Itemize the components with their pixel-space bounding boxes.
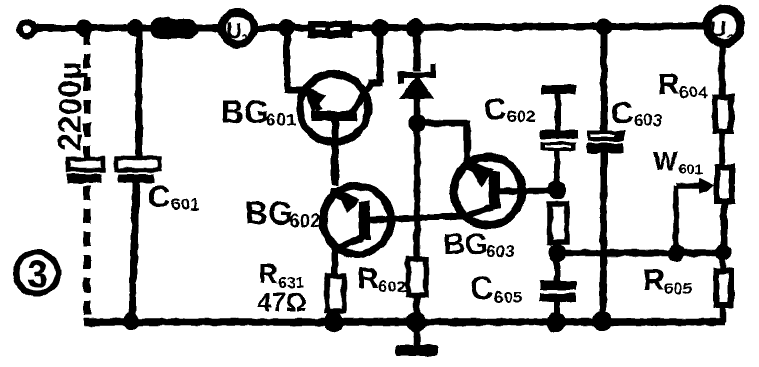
svg-text:R: R [658, 68, 680, 101]
svg-text:U: U [226, 18, 242, 43]
node P (bottom, C603) [592, 311, 612, 331]
node I (junction at 557,253) [548, 244, 566, 262]
svg-text:601: 601 [266, 110, 296, 130]
node B (junction at x=135) [127, 20, 144, 37]
resistor R631 [257, 258, 344, 322]
capacitor 2200u (dashed branch) [52, 31, 103, 320]
svg-text:BG: BG [245, 195, 293, 231]
node D (junction at x=380) [371, 19, 389, 37]
svg-text:605: 605 [494, 288, 522, 307]
node F (junction at x=604) [596, 19, 613, 36]
svg-text:BG: BG [443, 228, 488, 261]
svg-text:602: 602 [507, 107, 535, 126]
node E (junction at x=415) [406, 19, 424, 37]
node C (junction at x=287) [279, 20, 296, 37]
svg-text:W: W [653, 146, 678, 176]
capacitor C602 [484, 85, 578, 188]
resistor R605 [643, 253, 731, 322]
wire top rail left of U1 [34, 25, 221, 32]
node K (right rail junction) [715, 245, 732, 262]
resistor R603 [550, 204, 567, 253]
svg-text:603: 603 [486, 242, 514, 261]
wire top rail right of U1 [257, 26, 706, 28]
zener diode [399, 28, 434, 118]
svg-text:BG: BG [221, 94, 269, 130]
svg-text:3: 3 [27, 254, 48, 296]
svg-text:1: 1 [241, 31, 249, 47]
svg-text:602: 602 [378, 277, 406, 296]
node H (BG603 base junction) [548, 181, 566, 199]
resistor R604 [658, 44, 731, 131]
capacitor C601 [116, 28, 199, 320]
svg-text:602: 602 [290, 211, 320, 231]
svg-text:601: 601 [678, 161, 703, 178]
node G (below zener) [408, 114, 426, 132]
wire bottom rail [84, 318, 725, 326]
svg-text:R: R [357, 262, 379, 295]
node M (bottom, R631) [324, 312, 344, 332]
svg-text:R: R [258, 258, 278, 289]
capacitor C603 [587, 27, 662, 322]
svg-text:C: C [148, 179, 170, 214]
inductor L (black blob) [150, 17, 198, 39]
svg-text:U: U [710, 16, 727, 42]
svg-text:R: R [643, 264, 665, 297]
svg-text:603: 603 [634, 111, 662, 130]
svg-text:C: C [470, 270, 493, 306]
svg-text:C: C [611, 95, 633, 130]
svg-text:2200µ: 2200µ [52, 61, 88, 151]
node L (bottom, C601) [123, 313, 140, 330]
potentiometer W601 [653, 131, 732, 253]
meter U2 [707, 9, 741, 48]
svg-text:604: 604 [679, 83, 708, 102]
wire mid rail y=253 [557, 250, 723, 257]
svg-text:2: 2 [726, 31, 734, 48]
ground [396, 322, 438, 356]
figure label 3 [16, 252, 58, 296]
capacitor C605 [470, 253, 576, 322]
input terminal [20, 22, 34, 36]
node J (wiper junction) [668, 245, 685, 262]
node A (junction at x=84) [76, 20, 93, 37]
transistor BG603 [443, 157, 553, 261]
svg-text:605: 605 [664, 279, 692, 298]
node N (bottom, ground) [406, 312, 426, 332]
meter U1 [222, 12, 254, 47]
svg-text:C: C [484, 91, 506, 126]
transistor BG602 [245, 186, 463, 277]
wire zener node to BG603 [417, 120, 467, 168]
node O (bottom, C605) [546, 312, 566, 332]
resistor R602 [357, 123, 426, 322]
svg-text:601: 601 [171, 195, 199, 214]
resistor R (series, top rail) [308, 21, 352, 38]
transistor BG601 [221, 28, 382, 186]
svg-text:47Ω: 47Ω [257, 287, 307, 317]
